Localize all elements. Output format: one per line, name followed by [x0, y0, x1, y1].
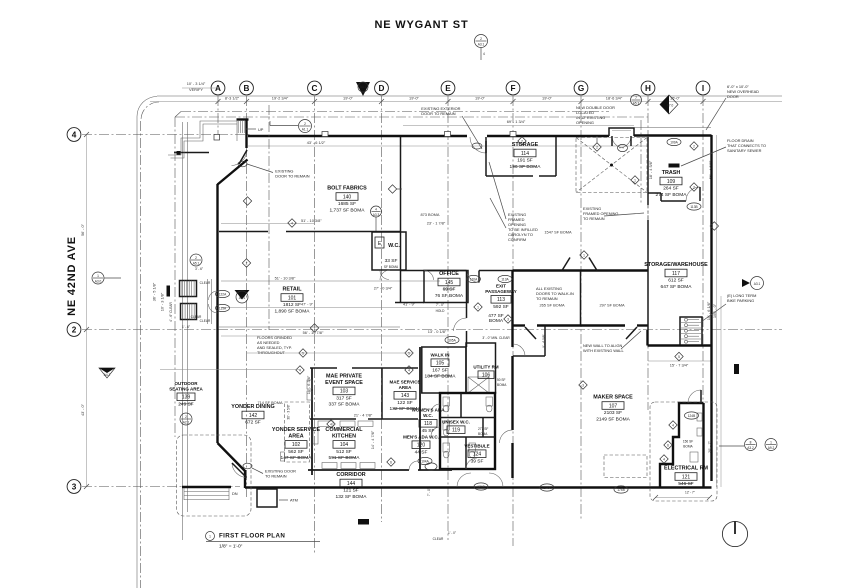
svg-text:109A: 109A	[670, 140, 678, 144]
svg-text:3' - 6": 3' - 6"	[195, 267, 203, 271]
grid line 2	[82, 329, 782, 331]
marker triangle D top	[356, 82, 370, 96]
door leaf northwest	[239, 150, 247, 164]
svg-text:UNISEX W.C.: UNISEX W.C.	[442, 420, 470, 425]
svg-text:VESTIBULE: VESTIBULE	[464, 444, 489, 449]
svg-text:3' - 0" MIN. CLEAR: 3' - 0" MIN. CLEAR	[482, 336, 510, 340]
marker oval tag south b	[540, 484, 554, 491]
svg-text:174B: 174B	[617, 488, 624, 492]
svg-text:RETAIL: RETAIL	[282, 287, 302, 293]
up stair treads	[237, 121, 245, 141]
wall wc west	[419, 347, 421, 470]
marker oval tag south a	[474, 483, 488, 490]
svg-text:CORRIDOR: CORRIDOR	[336, 472, 365, 478]
svg-text:103: 103	[340, 389, 349, 395]
marker diamond node maeE5	[405, 349, 413, 357]
svg-text:STORAGE: STORAGE	[512, 142, 539, 148]
F wall door arc	[500, 430, 513, 443]
svg-text:UP: UP	[258, 127, 264, 132]
marker diamond node kit4	[327, 420, 335, 428]
wall storage west	[485, 141, 487, 176]
exit passageway boma	[488, 313, 504, 324]
grid bubble 4	[67, 128, 81, 142]
svg-text:105A: 105A	[448, 338, 456, 342]
svg-text:1812 SF: 1812 SF	[283, 302, 301, 308]
svg-text:44 SF: 44 SF	[415, 449, 428, 455]
svg-text:WITH EXISTING WALL: WITH EXISTING WALL	[583, 348, 625, 353]
svg-text:2: 2	[195, 256, 197, 260]
walkin double door leaf a	[562, 258, 570, 271]
leader floor drain	[681, 147, 726, 166]
yonder service fixture	[281, 452, 285, 461]
wall top entry alcove	[609, 128, 634, 136]
svg-text:19'-0": 19'-0"	[542, 96, 553, 101]
leader existing door bottom	[252, 468, 263, 474]
svg-text:1: 1	[634, 179, 636, 183]
wall northwest diagonal	[218, 160, 248, 185]
svg-text:124: 124	[473, 452, 482, 458]
west stair flight upper	[180, 281, 197, 297]
svg-text:174B: 174B	[477, 485, 484, 489]
marker diamond node right dim	[710, 222, 718, 230]
svg-text:274 SF BOMA: 274 SF BOMA	[656, 192, 688, 198]
svg-text:BOMA: BOMA	[478, 432, 488, 436]
svg-text:562 SF: 562 SF	[288, 449, 304, 455]
marker diamond node mk2	[579, 381, 587, 389]
note new double door	[576, 105, 615, 125]
svg-text:A3.3: A3.3	[373, 213, 380, 217]
svg-text:1' - 0": 1' - 0"	[448, 531, 456, 535]
kitchen fixtures	[307, 380, 375, 469]
dim line y369	[160, 369, 300, 371]
note floors grinded	[257, 335, 292, 355]
svg-text:19'-0": 19'-0"	[475, 96, 486, 101]
svg-text:H: H	[645, 84, 651, 93]
unisex boma	[478, 427, 488, 436]
walkin double door leaf b	[589, 258, 597, 271]
wall west	[216, 184, 218, 443]
walkin south door leaf a	[525, 327, 536, 339]
corridor door arc	[409, 461, 418, 470]
svg-text:CLEAR: CLEAR	[200, 319, 211, 323]
svg-text:2: 2	[693, 186, 695, 190]
svg-text:DOOR TO REMAIN: DOOR TO REMAIN	[275, 174, 309, 179]
wall southwest vertical	[244, 470, 246, 488]
svg-text:43' - 0": 43' - 0"	[80, 403, 85, 416]
street curb west	[136, 117, 138, 588]
west stair wall bar	[167, 286, 171, 297]
svg-text:YONDER SERVICE: YONDER SERVICE	[272, 427, 321, 433]
wall top mid section	[487, 135, 609, 137]
dim line 47-9	[221, 307, 466, 309]
marker diamond node el6	[664, 441, 672, 449]
dim tick 12-7 b	[707, 495, 712, 500]
wall storage south a	[486, 175, 533, 177]
svg-text:122A: 122A	[219, 292, 227, 296]
svg-text:114: 114	[521, 151, 529, 157]
svg-text:ELECTRICAL RM: ELECTRICAL RM	[664, 466, 708, 472]
svg-text:8'-3 1/2": 8'-3 1/2"	[225, 96, 240, 101]
grid line D	[381, 96, 383, 522]
west stair doors	[209, 291, 218, 313]
svg-text:4: 4	[299, 369, 301, 373]
svg-text:104A: 104A	[421, 459, 429, 463]
wall storage east	[555, 137, 557, 176]
svg-text:51' - 10 3/8": 51' - 10 3/8"	[275, 276, 296, 281]
svg-text:337 SF BOMA: 337 SF BOMA	[329, 402, 361, 408]
leader existing door TL	[247, 164, 273, 173]
svg-text:5: 5	[678, 355, 680, 359]
wall kitchen corridor a	[308, 469, 409, 471]
marker diamond node D wall	[388, 185, 396, 193]
svg-text:YONDER DINING: YONDER DINING	[231, 404, 274, 410]
note framed opening remain	[583, 206, 618, 221]
marker triangle A4.2	[99, 368, 115, 378]
svg-text:2: 2	[596, 146, 598, 150]
dim tick G	[579, 99, 584, 104]
dim tick A	[216, 99, 221, 104]
parapet line east	[634, 127, 711, 129]
svg-text:36' - 5 1/8": 36' - 5 1/8"	[152, 282, 157, 301]
svg-text:WOMEN'S ADA: WOMEN'S ADA	[412, 408, 445, 413]
svg-text:69' - 1 3/4": 69' - 1 3/4"	[507, 119, 526, 124]
svg-text:4: 4	[408, 369, 410, 373]
svg-text:4: 4	[330, 423, 332, 427]
svg-text:592 SF: 592 SF	[493, 304, 509, 310]
svg-text:45 SF: 45 SF	[422, 428, 435, 434]
svg-text:EXIT: EXIT	[496, 284, 506, 289]
marker diamond node el4b	[660, 455, 668, 463]
svg-text:D: D	[379, 84, 385, 93]
wall mae north a	[310, 367, 337, 369]
door arc northwest entry	[232, 150, 248, 166]
svg-text:113A: 113A	[501, 277, 509, 281]
passage north door arc	[467, 271, 479, 283]
marker diamond node trash2	[690, 142, 698, 150]
marker oval tag TL door	[238, 161, 247, 167]
room label OUTDOOR SEATING AREA	[169, 381, 203, 407]
wall east warehouse west	[647, 137, 649, 205]
marker oval tag 120A	[467, 275, 481, 282]
svg-text:113B: 113B	[690, 205, 697, 209]
room label OFFICE	[435, 271, 464, 299]
svg-text:4: 4	[663, 458, 665, 462]
room label UTILITY RM	[473, 365, 498, 379]
svg-text:NE 42ND AVE: NE 42ND AVE	[66, 236, 78, 316]
svg-text:142: 142	[249, 413, 258, 419]
svg-text:122 SF: 122 SF	[397, 400, 413, 406]
A3.3 stem	[375, 217, 377, 231]
svg-text:A4.1: A4.1	[360, 85, 367, 89]
marker diamond node xbox	[593, 143, 601, 151]
dim line 12-7	[655, 497, 710, 499]
wc cluster walls	[440, 393, 495, 469]
wc cluster partition v3	[482, 418, 484, 438]
room label EXIT PASSAGEWAY	[485, 284, 517, 310]
svg-text:7' - 0": 7' - 0"	[427, 488, 431, 496]
wall corridor east of bolt	[400, 137, 402, 302]
grid line I	[702, 96, 704, 478]
wc fixtures	[431, 397, 493, 469]
svg-text:4: 4	[483, 52, 485, 56]
svg-text:109: 109	[667, 179, 676, 185]
note floor drain	[727, 138, 766, 153]
wall mae north b	[352, 367, 418, 369]
svg-text:1/8" = 1'-0": 1/8" = 1'-0"	[219, 544, 243, 550]
leader framed remain	[604, 213, 644, 216]
svg-text:WALK IN: WALK IN	[431, 353, 450, 358]
office door arc	[424, 271, 434, 281]
marker diamond node maeE4	[405, 366, 413, 374]
svg-text:BOMA: BOMA	[497, 383, 507, 387]
room label VESTIBULE	[464, 444, 489, 465]
svg-text:PASSAGEWAY: PASSAGEWAY	[485, 289, 517, 294]
wall entry cap	[237, 118, 249, 120]
A1.1 leader	[270, 121, 298, 126]
marker circle A3.3 ref bolt	[371, 206, 382, 217]
marker circle A3.1 top ref	[475, 35, 488, 48]
svg-text:6: 6	[667, 444, 669, 448]
wall walkin divider	[580, 271, 582, 326]
door arc top wall	[470, 137, 486, 153]
svg-text:UTILITY RM: UTILITY RM	[473, 365, 498, 370]
svg-text:1: 1	[314, 327, 316, 331]
wall southwest diagonal	[218, 443, 246, 471]
svg-text:MAE PRIVATE: MAE PRIVATE	[326, 374, 362, 380]
canopy line north	[175, 116, 648, 118]
dim line verify	[182, 87, 218, 89]
electrical fixtures	[690, 413, 702, 462]
leader existing exterior door	[462, 116, 482, 149]
svg-text:1' - 6": 1' - 6"	[182, 325, 190, 329]
wall top east section	[634, 134, 712, 136]
retail south line	[219, 326, 400, 328]
dim tick B	[244, 99, 249, 104]
dim tick C	[312, 99, 317, 104]
wall bolt-retail divider a	[219, 231, 268, 233]
svg-text:191 SF: 191 SF	[517, 158, 533, 164]
svg-text:A3.1: A3.1	[478, 42, 485, 46]
walkin south door leaf b	[626, 327, 637, 339]
grid line C	[314, 96, 316, 553]
marker circle A5.3 ref	[631, 95, 642, 106]
marker circle A2.1 outdoor	[180, 413, 192, 425]
svg-text:ATM: ATM	[290, 498, 298, 503]
wc cluster partition h1	[440, 417, 495, 419]
vestibule exit fan a	[457, 473, 471, 487]
svg-text:8: 8	[750, 440, 752, 444]
wall passage north	[479, 270, 513, 272]
property line corner	[141, 102, 159, 120]
right dimension line b	[720, 296, 722, 487]
room label STORAGE	[510, 142, 542, 170]
wall east	[710, 135, 712, 481]
left dim tick 3	[84, 484, 89, 489]
column bump E	[445, 132, 451, 137]
street curb corner arc	[137, 97, 157, 117]
grid line B	[246, 96, 248, 497]
marker oval tag south c	[614, 486, 628, 493]
svg-text:A3.2: A3.2	[747, 446, 754, 450]
svg-text:124B: 124B	[688, 414, 695, 418]
left dimension line	[86, 135, 88, 487]
electrical door arc	[688, 390, 701, 403]
svg-text:15' - 7 3/4": 15' - 7 3/4"	[670, 363, 689, 368]
leader infill b	[490, 198, 506, 228]
svg-text:147 SF BOMA: 147 SF BOMA	[281, 455, 313, 461]
egress dash line H area	[640, 120, 642, 205]
trash room walls	[648, 187, 700, 201]
door arc southwest	[232, 463, 247, 478]
svg-text:3: 3	[507, 318, 509, 322]
wall kitchen corridor b	[418, 469, 452, 471]
svg-text:19'-2 3/4": 19'-2 3/4"	[272, 96, 289, 101]
svg-text:7' - 0": 7' - 0"	[436, 303, 444, 307]
svg-text:1: 1	[209, 535, 211, 539]
room label COMMERCIAL KITCHEN	[325, 427, 363, 461]
column bump F	[510, 132, 516, 137]
note existing door to remain TL	[275, 169, 309, 179]
svg-text:56' - 0": 56' - 0"	[80, 223, 85, 236]
grid bubble A	[211, 81, 225, 95]
svg-text:10' - 3 1/4": 10' - 3 1/4"	[187, 81, 206, 86]
svg-text:CONFIRM: CONFIRM	[508, 237, 526, 242]
wall walkin south a	[513, 324, 526, 326]
marker triangle A5.1 retail	[235, 290, 250, 303]
svg-text:265 SF BOMA: 265 SF BOMA	[539, 303, 564, 308]
room label MENS ADA WC	[403, 435, 439, 456]
svg-text:145: 145	[445, 280, 454, 286]
marker diamond node cor6	[387, 458, 395, 466]
marker oval tag 113B	[687, 203, 701, 210]
electrical room walls	[660, 403, 704, 487]
marker circle A3.0 ref	[92, 272, 104, 284]
dim tick F	[511, 99, 516, 104]
wc cluster partition h2	[440, 436, 495, 438]
svg-text:E: E	[445, 84, 451, 93]
dim line 51-10	[221, 223, 314, 225]
column bump C	[322, 132, 328, 137]
svg-text:156 SF: 156 SF	[683, 440, 693, 444]
svg-text:317 SF: 317 SF	[336, 396, 352, 402]
grid bubble B	[240, 81, 254, 95]
alcove mini dim	[612, 130, 631, 132]
svg-text:FIRST FLOOR PLAN: FIRST FLOOR PLAN	[219, 533, 285, 540]
marker oval tag 122A	[216, 290, 230, 297]
marker circle A5.1 stair ref	[190, 254, 202, 266]
section bar south	[358, 519, 369, 525]
wall mae south b	[368, 418, 418, 420]
svg-text:4: 4	[672, 424, 674, 428]
svg-text:873 BOMA: 873 BOMA	[420, 212, 439, 217]
wall mae south a	[310, 418, 356, 420]
sidewalk line west inner	[187, 122, 189, 512]
canopy corner west short	[175, 112, 181, 118]
wall dining east	[311, 368, 313, 475]
marker oval tag 103A	[425, 463, 437, 470]
svg-text:297 SF BOMA: 297 SF BOMA	[599, 303, 624, 308]
note bike parking note	[727, 293, 756, 303]
grid bubble 2	[67, 323, 81, 337]
wall office north	[401, 270, 467, 272]
wall bike south	[648, 344, 712, 346]
svg-text:196 SF BOMA: 196 SF BOMA	[510, 164, 542, 170]
dim tick H	[646, 99, 651, 104]
leader new wall	[621, 331, 641, 349]
marker A3.1 right	[742, 277, 764, 290]
atm kiosk	[257, 489, 277, 507]
north arrow	[722, 521, 747, 546]
svg-text:BOLT FABRICS: BOLT FABRICS	[327, 186, 367, 192]
svg-text:TO REMAIN: TO REMAIN	[583, 216, 605, 221]
stair handrail a	[207, 279, 209, 324]
svg-text:118: 118	[424, 421, 432, 427]
node D wall leader	[397, 188, 403, 190]
svg-text:101: 101	[288, 295, 297, 301]
entry alcove doors	[612, 136, 631, 148]
wall walkin south b	[537, 324, 625, 326]
svg-text:A5.3: A5.3	[633, 101, 640, 105]
svg-text:2: 2	[72, 326, 77, 335]
marker oval tag 124B	[685, 412, 699, 419]
note new wall align	[583, 343, 625, 353]
svg-text:10' - 3 1/8": 10' - 3 1/8"	[160, 292, 165, 311]
svg-text:AREA: AREA	[288, 433, 303, 439]
svg-text:2103 SF: 2103 SF	[604, 410, 622, 416]
right dimension line a	[716, 135, 718, 487]
grid line 3	[82, 486, 240, 488]
note existing door bottom	[265, 469, 296, 479]
svg-text:76 SF BOMA: 76 SF BOMA	[435, 293, 464, 299]
grid line G	[580, 96, 582, 520]
svg-text:107: 107	[609, 403, 618, 409]
marker oval tag 104A	[418, 457, 432, 464]
room label TRASH	[656, 170, 688, 198]
wall storage south b	[539, 175, 556, 177]
svg-text:18'-6 3/4": 18'-6 3/4"	[606, 96, 623, 101]
svg-text:5: 5	[408, 352, 410, 356]
svg-text:THROUGHOUT: THROUGHOUT	[257, 350, 286, 355]
wc south door arc	[380, 271, 389, 280]
svg-text:4: 4	[375, 207, 377, 211]
svg-text:SEATING AREA: SEATING AREA	[169, 387, 203, 392]
svg-text:EVENT SPACE: EVENT SPACE	[325, 380, 363, 386]
svg-text:A3.0: A3.0	[95, 279, 102, 283]
room label MAE SERVICE AREA	[390, 380, 422, 413]
wall walkin south c	[637, 324, 648, 326]
aux grid line 269	[268, 105, 270, 330]
yonder service dashed bar	[285, 402, 310, 462]
marker A7.0 diamond	[660, 95, 678, 114]
electrical door leaf	[700, 390, 702, 403]
svg-text:113: 113	[497, 297, 505, 303]
marker circle A1.1 ref	[299, 120, 312, 133]
svg-text:BIKE PARKING: BIKE PARKING	[727, 298, 754, 303]
svg-text:51' - 10 3/8": 51' - 10 3/8"	[301, 218, 322, 223]
grid line 4	[82, 134, 250, 136]
svg-text:120: 120	[417, 443, 426, 449]
svg-text:1547 SF BOMA: 1547 SF BOMA	[544, 230, 572, 235]
marker diamond node C2	[310, 324, 318, 332]
svg-text:A: A	[215, 84, 221, 93]
marker diamond node mae4	[296, 366, 304, 374]
svg-text:BOMA: BOMA	[683, 445, 693, 449]
maker dashed zone	[604, 455, 647, 478]
door leaf top wall	[485, 137, 487, 153]
leader bike	[701, 304, 726, 322]
svg-text:69 SF: 69 SF	[443, 287, 456, 293]
svg-text:19'-0": 19'-0"	[343, 96, 354, 101]
